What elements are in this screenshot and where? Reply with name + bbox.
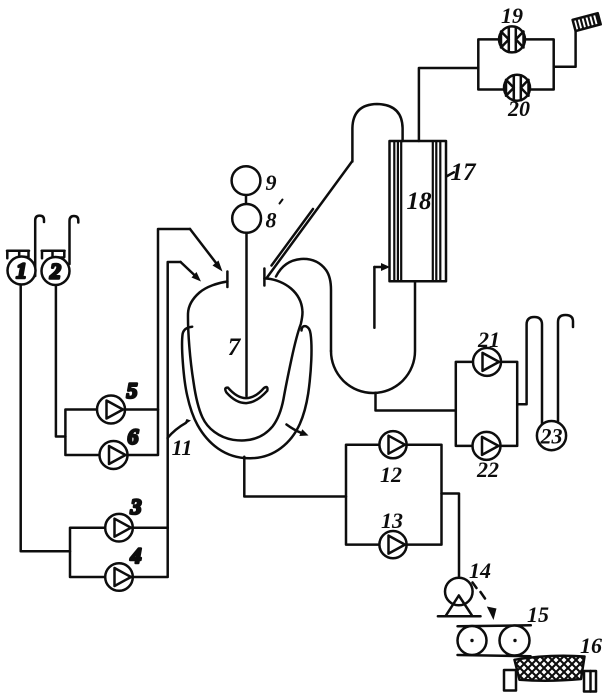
vent hook pipe of tank 2 [70,216,79,264]
stray tick near label 8 [280,200,283,204]
svg-text:9: 9 [266,170,277,195]
vent hook at seal pot [558,315,573,423]
pump 22 [473,432,501,482]
wire riser to reactor lower inlet [168,262,181,528]
pump 3 [105,494,141,542]
condenser arch pipe [352,104,402,162]
svg-text:23: 23 [540,424,563,449]
drive circle 8 [232,204,276,233]
svg-text:19: 19 [501,3,523,28]
pump 12 [379,431,406,487]
U-trap drain to pumps 21/22 loop [376,393,456,411]
label 17 with leader [446,159,477,186]
pump 14 [438,558,491,616]
double diagonal pipe reactor to condenser arch [267,162,352,278]
tank 2 [42,257,70,285]
wire riser to reactor upper inlet [158,229,190,410]
svg-text:7: 7 [228,334,242,361]
inlet arrow lower [181,262,201,282]
svg-text:13: 13 [381,508,403,533]
svg-text:11: 11 [172,435,193,460]
discharge wire to vent [554,31,576,67]
vent hook pipe of tank 1 [35,216,44,276]
riser from exchanger top to vacuum pumps [419,68,478,141]
cooling water arrow into exchanger [374,263,390,328]
nozzle tick left [226,272,229,288]
label 11 with arrow [168,419,193,460]
svg-text:16: 16 [580,633,602,658]
wire loop to pump 14 [442,494,460,578]
tank 1 [8,257,36,285]
svg-text:5: 5 [127,378,138,403]
vacuum pump 19 [499,3,525,52]
vacuum pump 20 [504,75,530,121]
tank T2 cap [42,251,65,259]
pumps 3/4 loop piping [70,528,168,577]
pump 5 [97,378,138,424]
jacket outflow arrow [287,425,309,437]
svg-text:21: 21 [477,327,500,352]
discharge to seal pot [517,317,542,424]
svg-text:1: 1 [16,258,27,283]
seal pot 23 [537,421,566,450]
pumps 12/13 loop piping [346,445,442,545]
vacuum pumps 19/20 loop piping [478,39,553,89]
vapor pipe from reactor to U-trap [276,259,331,351]
svg-text:14: 14 [469,558,491,583]
dashed drop arrow 14 to 15 [473,583,497,621]
wire from tank 2 to pumps 5/6 loop [56,285,66,436]
stirrer shaft [245,233,248,396]
svg-text:3: 3 [130,494,142,519]
svg-text:18: 18 [407,188,433,215]
heat exchanger 17 shell [390,141,447,281]
exchanger tube lines [394,142,440,282]
svg-text:22: 22 [476,457,499,482]
pumps 21/22 loop piping [456,362,517,446]
pump 4 [105,543,141,591]
roller mill 15 [458,602,550,656]
svg-text:17: 17 [451,159,478,186]
pump 6 [100,424,139,469]
U-trap bottom [331,281,415,393]
pump 13 [379,508,406,558]
svg-text:20: 20 [507,96,530,121]
reactor jacket 11 [182,326,311,458]
svg-text:12: 12 [380,462,402,487]
atmospheric vent symbol [573,13,601,31]
inlet arrow upper [190,229,223,272]
wire from tank 1 to pumps 3/4 loop [21,285,70,552]
drive circle 9 [232,166,277,195]
stirrer impeller [225,387,267,403]
pump 21 [473,327,501,376]
wire reactor bottom to pumps 12/13 loop [244,457,346,497]
shaft link 9-8 [245,195,248,204]
svg-text:2: 2 [49,259,61,284]
pumps 5/6 loop piping [65,410,158,456]
svg-text:6: 6 [128,424,139,449]
tank T1 cap [7,251,29,259]
svg-text:4: 4 [130,543,142,568]
nozzle tick right [263,269,266,286]
svg-text:15: 15 [527,602,549,627]
product trough 16 [470,633,608,694]
reactor vessel 7 body [188,278,303,440]
svg-text:8: 8 [266,208,277,233]
